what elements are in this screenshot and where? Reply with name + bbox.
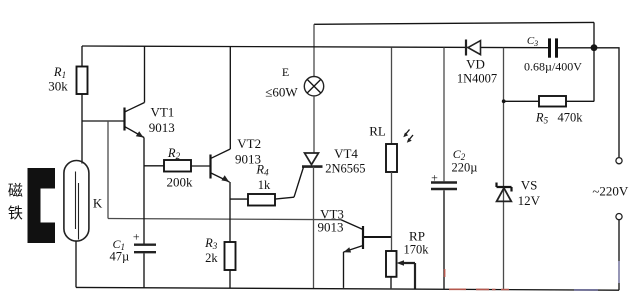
svg-text:0.68µ/400V: 0.68µ/400V <box>524 60 582 74</box>
terminal upper <box>616 158 622 164</box>
svg-text:VT4: VT4 <box>334 146 358 161</box>
svg-text:2k: 2k <box>205 251 218 265</box>
svg-text:200k: 200k <box>167 175 194 190</box>
node R5/VS junction <box>502 99 506 103</box>
wire lower terminal to bottom rail <box>618 220 620 261</box>
wire top rail (lamp branch to right corner) <box>314 22 594 24</box>
svg-text:47µ: 47µ <box>109 250 129 264</box>
svg-text:RP: RP <box>409 229 425 244</box>
transistor VT3 <box>362 226 364 249</box>
svg-text:1k: 1k <box>258 178 271 192</box>
wire VT1 base wire <box>82 120 124 122</box>
node junction dot <box>591 44 598 51</box>
resistor R3 <box>225 242 236 270</box>
resistor R4 <box>230 198 248 200</box>
svg-text:1N4007: 1N4007 <box>457 72 497 86</box>
svg-text:220µ: 220µ <box>452 161 478 175</box>
wire rail to 220V upper terminal <box>558 48 620 158</box>
svg-text:30k: 30k <box>48 79 68 94</box>
wire VT4 gate <box>294 167 304 197</box>
wire C1 bottom lead <box>143 253 145 287</box>
resistor R2 <box>144 165 164 167</box>
wire VT3 base wire <box>363 236 392 238</box>
wire RP wiper arrow to bottom rail <box>397 260 405 266</box>
svg-text:9013: 9013 <box>149 120 175 135</box>
svg-text:470k: 470k <box>558 111 584 125</box>
svg-text:9013: 9013 <box>318 220 344 235</box>
diode VD <box>465 40 467 56</box>
svg-text:VS: VS <box>521 178 538 193</box>
watermark red tick on C2 lead <box>444 269 446 277</box>
wire mid rail to VT3 collector <box>108 219 341 220</box>
svg-text:VT2: VT2 <box>237 136 261 151</box>
wire main supply rail <box>82 46 549 48</box>
photoresistor RL <box>391 47 393 144</box>
capacitor C1 <box>134 243 156 245</box>
wire VT4 cathode lead to bottom rail <box>313 167 315 289</box>
transistor VT1 <box>123 108 125 131</box>
wire vertical to mid rail <box>107 121 109 219</box>
resistor R5 <box>504 100 540 102</box>
resistor R1 <box>81 46 83 67</box>
wire C2 bottom lead <box>443 190 445 289</box>
wire right vertical from top rail through junction down to R5 <box>593 22 595 101</box>
wire lamp top lead <box>313 24 315 76</box>
svg-text:170k: 170k <box>404 243 430 257</box>
svg-text:12V: 12V <box>518 193 541 208</box>
wire VT2 emitter lead down to R3 <box>229 182 231 242</box>
svg-text:2N6565: 2N6565 <box>325 162 365 176</box>
svg-text:RL: RL <box>369 124 386 139</box>
svg-text:≤60W: ≤60W <box>265 85 298 100</box>
wire VT2 collector lead <box>229 47 231 149</box>
svg-text:铁: 铁 <box>8 205 23 222</box>
reed switch K <box>64 161 89 242</box>
wire VT1 emitter lead down to C1 <box>143 138 145 245</box>
transistor VT2 <box>209 155 211 179</box>
watermark red dashes on bottom rail <box>449 288 509 290</box>
lamp E <box>304 77 323 96</box>
wire reed switch bottom lead <box>75 241 77 287</box>
capacitor C2 <box>443 48 445 182</box>
svg-text:VD: VD <box>466 57 485 72</box>
light arrows <box>405 130 410 136</box>
thyristor VT4 <box>313 96 315 153</box>
svg-text:K: K <box>93 196 103 211</box>
capacitor C3 <box>548 38 551 57</box>
svg-text:磁: 磁 <box>8 183 23 200</box>
magnet symbol <box>28 168 56 243</box>
svg-text:~220V: ~220V <box>592 184 629 199</box>
wire bottom rail <box>76 287 619 290</box>
watermark blue dash on bottom rail <box>574 289 598 291</box>
svg-text:E: E <box>282 65 289 79</box>
svg-text:+: + <box>133 229 140 243</box>
terminal lower <box>616 214 622 220</box>
svg-text:+: + <box>431 171 438 185</box>
wire VT1 collector lead <box>144 46 146 102</box>
svg-text:VT1: VT1 <box>150 105 174 120</box>
wire VT3 emitter lead to bottom rail <box>343 252 345 288</box>
potentiometer RP <box>386 251 397 277</box>
zener diode VS <box>503 48 505 289</box>
